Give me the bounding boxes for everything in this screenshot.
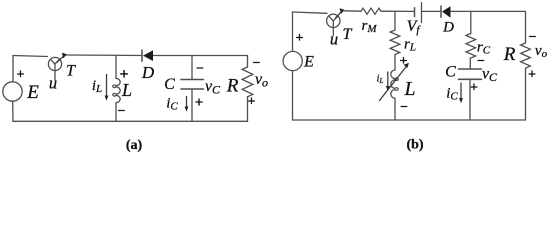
svg-text:E: E	[26, 82, 39, 103]
svg-text:−: −	[400, 100, 408, 115]
svg-text:+: +	[195, 95, 204, 111]
svg-text:E: E	[303, 54, 314, 71]
svg-text:R: R	[226, 76, 239, 97]
svg-text:−: −	[196, 62, 204, 77]
svg-text:+: +	[400, 54, 408, 69]
svg-text:L: L	[121, 80, 132, 100]
svg-text:Vf: Vf	[407, 18, 422, 36]
svg-text:vo: vo	[535, 43, 548, 60]
svg-text:(b): (b)	[406, 138, 423, 153]
svg-text:D: D	[141, 63, 155, 82]
svg-text:vC: vC	[205, 78, 221, 97]
svg-text:+: +	[296, 31, 304, 46]
svg-text:+: +	[470, 81, 478, 96]
svg-text:D: D	[442, 20, 454, 36]
svg-text:u: u	[49, 74, 57, 93]
svg-text:rL: rL	[404, 37, 416, 54]
svg-text:T: T	[66, 63, 76, 80]
svg-text:rM: rM	[361, 18, 377, 35]
svg-text:+: +	[528, 68, 536, 83]
svg-text:C: C	[164, 76, 175, 93]
svg-text:u: u	[330, 30, 338, 49]
svg-text:−: −	[118, 104, 126, 119]
svg-text:(a): (a)	[126, 138, 143, 153]
svg-text:R: R	[503, 44, 516, 65]
svg-text:iC: iC	[166, 96, 178, 113]
svg-text:T: T	[343, 26, 353, 43]
svg-text:C: C	[445, 64, 456, 81]
svg-text:iL: iL	[377, 74, 384, 86]
svg-text:iC: iC	[446, 86, 458, 103]
svg-text:vo: vo	[255, 71, 268, 90]
svg-text:L: L	[404, 79, 416, 100]
svg-text:vC: vC	[482, 66, 498, 85]
svg-text:−: −	[253, 56, 261, 71]
svg-text:+: +	[17, 68, 25, 83]
svg-text:iL: iL	[92, 78, 102, 95]
svg-text:+: +	[248, 95, 256, 110]
